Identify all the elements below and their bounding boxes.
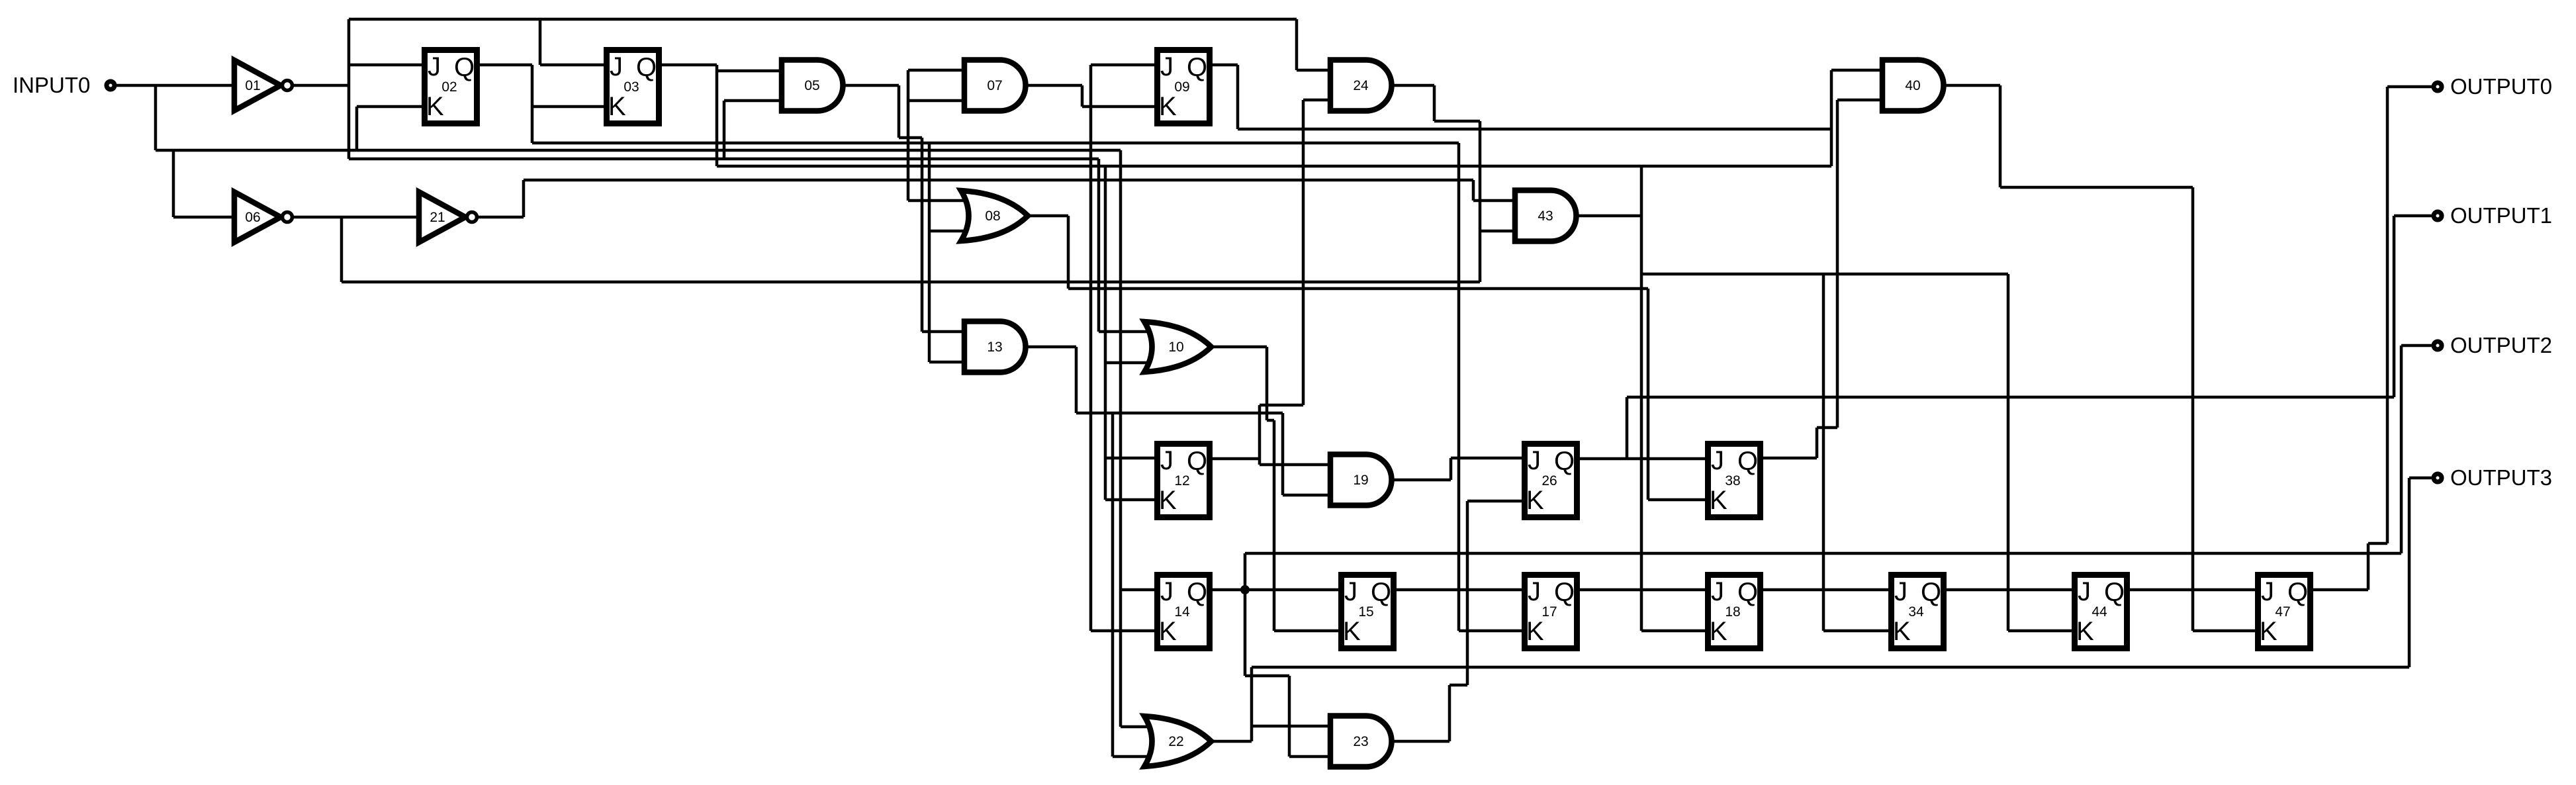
svg-text:K: K bbox=[1159, 92, 1177, 121]
jk flip-flop 26 bbox=[1525, 444, 1577, 518]
jk flip-flop 44 bbox=[2075, 575, 2127, 649]
svg-text:38: 38 bbox=[1725, 473, 1740, 488]
svg-text:Q: Q bbox=[1554, 447, 1575, 476]
wire bus y=195 to and 40 in1 riser bbox=[1238, 128, 1831, 131]
wire and 24 output steps bbox=[1390, 85, 1480, 121]
svg-text:K: K bbox=[1343, 617, 1361, 646]
svg-text:24: 24 bbox=[1353, 78, 1369, 93]
wire bus y=216 bbox=[532, 142, 1459, 145]
jk flip-flop 02 bbox=[425, 50, 477, 124]
label OUTPUT3 bbox=[2450, 465, 2552, 490]
wire Q38 up to and 40 in2 bbox=[1763, 100, 1882, 458]
output terminal OUTPUT2 bbox=[2434, 342, 2442, 349]
jk flip-flop 17 bbox=[1525, 575, 1577, 649]
output terminal OUTPUT0 bbox=[2434, 83, 2442, 91]
svg-text:OUTPUT0: OUTPUT0 bbox=[2450, 74, 2552, 99]
svg-text:05: 05 bbox=[804, 78, 819, 93]
svg-text:J: J bbox=[1711, 577, 1724, 606]
wire bus y=216 down to K of 17 bbox=[1459, 143, 1522, 631]
wire INPUT0 branch to J of 14 bbox=[1121, 588, 1154, 592]
svg-text:K: K bbox=[1526, 617, 1544, 646]
wire and 23 output to K of 26 bbox=[1390, 501, 1522, 741]
jk flip-flop 14 bbox=[1158, 575, 1210, 649]
jk flip-flop 47 bbox=[2258, 575, 2311, 649]
wire and 07 output to K of 09 bbox=[1023, 85, 1154, 107]
wire bus y=216 up to and 07 inputs bbox=[908, 70, 964, 143]
svg-text:J: J bbox=[1160, 446, 1173, 475]
wire Q02 to K of 03 bbox=[532, 105, 604, 109]
wire or 22 output to OUTPUT3 bbox=[1252, 478, 2433, 667]
wire Q03 to and 05 in1 bbox=[717, 69, 782, 73]
wire bus y=251 down to or 10 in2 and J K of 12 bbox=[1105, 166, 1166, 500]
wire bus y=251 bbox=[717, 165, 1831, 168]
and gate 19 bbox=[1330, 455, 1392, 506]
svg-text:K: K bbox=[1893, 617, 1911, 646]
wire inverter 21 output bus y=272 to and 43 in1 bbox=[477, 180, 1515, 217]
wire INPUT0 to inverter 01 bbox=[116, 84, 234, 87]
and gate 13 bbox=[964, 322, 1026, 373]
svg-text:K: K bbox=[608, 92, 626, 121]
svg-text:02: 02 bbox=[441, 79, 457, 95]
jk flip-flop 09 bbox=[1158, 50, 1210, 124]
wire Q26 to J of 38 bbox=[1580, 457, 1705, 461]
svg-text:OUTPUT2: OUTPUT2 bbox=[2450, 333, 2552, 357]
wire and 43 output to riser bbox=[1574, 214, 1641, 218]
wire or 22 output to and 23 in1 bbox=[1252, 725, 1330, 728]
svg-text:J: J bbox=[1528, 577, 1541, 606]
svg-text:J: J bbox=[1160, 577, 1173, 606]
wire Q34 to J of 44 bbox=[1947, 588, 2072, 592]
svg-text:J: J bbox=[2261, 577, 2274, 606]
svg-text:06: 06 bbox=[245, 210, 260, 225]
svg-text:Q: Q bbox=[1737, 578, 1758, 607]
wire Q02 down to bus y=216 bbox=[480, 65, 532, 143]
wire and 40 output to K of 47 bbox=[1941, 85, 2255, 631]
and gate 05 bbox=[782, 60, 843, 111]
wire riser x=527 top bus bbox=[349, 19, 1297, 159]
wire inverter 06 output to inverter 21 bbox=[292, 216, 419, 219]
wire Q26 branch to OUTPUT1 bbox=[1627, 216, 2433, 459]
wire top bus drop to J of 03 bbox=[540, 19, 604, 65]
svg-text:Q: Q bbox=[1187, 578, 1207, 607]
svg-text:J: J bbox=[1711, 446, 1724, 475]
svg-text:K: K bbox=[2260, 617, 2277, 646]
wire Q14 to J of 15 bbox=[1213, 588, 1338, 592]
wire inverter 06 output bus y=426 bbox=[342, 217, 1480, 282]
wire bus y=216 down to or 08 in1 bbox=[908, 143, 982, 201]
jk flip-flop 12 bbox=[1158, 444, 1210, 518]
svg-text:40: 40 bbox=[1905, 78, 1920, 93]
svg-text:15: 15 bbox=[1358, 604, 1373, 620]
wire and 05 output to and 13 in1 bbox=[839, 85, 964, 332]
svg-text:13: 13 bbox=[987, 340, 1002, 355]
wire INPUT0 branch down and bus y=227 bbox=[156, 85, 1166, 727]
wire bus y=251 up to and 40 in1 bbox=[1831, 70, 1882, 166]
svg-text:Q: Q bbox=[1371, 578, 1391, 607]
svg-text:43: 43 bbox=[1538, 208, 1553, 224]
svg-text:14: 14 bbox=[1174, 604, 1190, 620]
svg-text:Q: Q bbox=[2104, 578, 2125, 607]
label OUTPUT0 bbox=[2450, 74, 2552, 99]
svg-text:Q: Q bbox=[1187, 53, 1207, 82]
svg-text:J: J bbox=[1528, 446, 1541, 475]
svg-text:01: 01 bbox=[245, 78, 260, 93]
svg-text:26: 26 bbox=[1541, 473, 1557, 488]
wire or 22 output riser bbox=[1207, 667, 1252, 741]
svg-text:OUTPUT1: OUTPUT1 bbox=[2450, 203, 2552, 228]
svg-text:12: 12 bbox=[1174, 473, 1189, 488]
wire INPUT0 branch to K of 02 bbox=[357, 107, 422, 150]
and gate 43 bbox=[1515, 191, 1576, 242]
wire Q03 to corner bbox=[662, 65, 717, 166]
jk flip-flop 34 bbox=[1892, 575, 1944, 649]
wire Q12 to and 19 in1 bbox=[1213, 405, 1330, 465]
svg-text:K: K bbox=[1159, 617, 1177, 646]
and gate 24 bbox=[1330, 60, 1392, 111]
inverter 01 bbox=[234, 60, 293, 111]
svg-text:INPUT0: INPUT0 bbox=[13, 73, 90, 97]
wire riser x=1404 to or 08 in2 and and 13 in2 bbox=[929, 143, 982, 362]
jk flip-flop 38 bbox=[1708, 444, 1761, 518]
wire and 13 output to and 19 in2 bbox=[1283, 413, 1330, 495]
svg-text:19: 19 bbox=[1353, 473, 1368, 488]
wire top bus drop to and 24 in1 bbox=[1297, 19, 1330, 70]
svg-text:17: 17 bbox=[1541, 604, 1557, 620]
wire riser x=1648 J09 to K14 bbox=[1091, 65, 1154, 631]
label INPUT0 bbox=[13, 73, 90, 97]
svg-text:18: 18 bbox=[1725, 604, 1740, 620]
jk flip-flop 03 bbox=[607, 50, 659, 124]
wire and 13 output to corner bbox=[1023, 347, 1283, 413]
wire bus y=414 down to K of 34 bbox=[1823, 274, 1888, 631]
svg-text:OUTPUT3: OUTPUT3 bbox=[2450, 465, 2552, 490]
svg-text:21: 21 bbox=[430, 210, 445, 225]
wire or 10 output to K of 15 bbox=[1207, 347, 1338, 631]
output terminal OUTPUT3 bbox=[2434, 474, 2442, 482]
inverter 21 bbox=[419, 192, 477, 242]
and gate 23 bbox=[1330, 716, 1392, 767]
and gate 07 bbox=[964, 60, 1026, 111]
svg-text:22: 22 bbox=[1168, 734, 1183, 749]
wire Q44 to J of 47 bbox=[2130, 588, 2255, 592]
wire bus y=240 up to and 05 in2 bbox=[724, 101, 782, 159]
jk flip-flop 18 bbox=[1708, 575, 1761, 649]
svg-text:J: J bbox=[610, 52, 623, 81]
svg-text:J: J bbox=[1894, 577, 1908, 606]
label OUTPUT1 bbox=[2450, 203, 2552, 228]
svg-text:K: K bbox=[1710, 486, 1727, 515]
svg-text:Q: Q bbox=[1554, 578, 1575, 607]
svg-text:Q: Q bbox=[1187, 447, 1207, 476]
wire riser x=2236 to and 43 in2 bbox=[1480, 121, 1515, 282]
svg-text:03: 03 bbox=[623, 79, 639, 95]
wire riser x=2480 to K of 18 bbox=[1641, 166, 1705, 631]
wire INPUT0 branch to inverter 06 bbox=[173, 150, 234, 217]
svg-text:47: 47 bbox=[2275, 604, 2290, 620]
wire Q17 to J of 18 bbox=[1580, 588, 1705, 592]
inverter 06 bbox=[234, 192, 293, 242]
wire bus y=240 to or 10 in1 bbox=[349, 159, 1166, 332]
wire Q47 to OUTPUT0 bbox=[2313, 87, 2433, 590]
or gate 08 bbox=[961, 191, 1028, 241]
and gate 40 bbox=[1882, 60, 1944, 111]
svg-text:Q: Q bbox=[1921, 578, 1941, 607]
wire and 19 output to J of 26 bbox=[1390, 458, 1522, 480]
svg-text:J: J bbox=[1160, 52, 1173, 81]
output terminal OUTPUT1 bbox=[2434, 212, 2442, 220]
wire Q14 to OUTPUT2 bbox=[1245, 346, 2433, 553]
svg-text:Q: Q bbox=[1737, 447, 1758, 476]
svg-text:Q: Q bbox=[636, 53, 657, 82]
label OUTPUT2 bbox=[2450, 333, 2552, 357]
jk flip-flop 15 bbox=[1342, 575, 1394, 649]
or gate 22 bbox=[1144, 716, 1211, 766]
wire Q12 up to and 24 in2 bbox=[1260, 100, 1330, 405]
wire top bus to J of 02 bbox=[349, 64, 422, 67]
junction on Q14 net bbox=[1240, 585, 1250, 594]
svg-text:Q: Q bbox=[454, 53, 475, 82]
svg-text:Q: Q bbox=[2287, 578, 2308, 607]
svg-text:09: 09 bbox=[1174, 79, 1189, 95]
wire Q15 to J of 17 bbox=[1397, 588, 1522, 592]
svg-text:K: K bbox=[1526, 486, 1544, 515]
wire Q18 to J of 34 bbox=[1763, 588, 1888, 592]
svg-text:K: K bbox=[2076, 617, 2094, 646]
svg-text:44: 44 bbox=[2092, 604, 2107, 620]
wire inverter 01 output to riser bbox=[292, 84, 349, 87]
svg-text:K: K bbox=[426, 92, 444, 121]
wire and 13 output down to or 22 in2 bbox=[1113, 413, 1166, 757]
svg-text:07: 07 bbox=[987, 78, 1002, 93]
wire Q09 down to bus y=195 bbox=[1213, 65, 1238, 129]
svg-text:K: K bbox=[1159, 486, 1177, 515]
wire or 08 output to K of 38 bbox=[1025, 216, 1705, 500]
svg-text:K: K bbox=[1710, 617, 1727, 646]
svg-text:J: J bbox=[428, 52, 441, 81]
or gate 10 bbox=[1144, 322, 1211, 372]
svg-text:34: 34 bbox=[1908, 604, 1924, 620]
input terminal INPUT0 bbox=[107, 81, 115, 89]
svg-text:23: 23 bbox=[1353, 734, 1368, 749]
wire bus y=414 down to K of 44 bbox=[2008, 274, 2072, 631]
wire Q14 to and 23 in2 bbox=[1245, 676, 1330, 757]
wire bus y=414 bbox=[1641, 273, 2008, 276]
svg-text:10: 10 bbox=[1168, 340, 1183, 355]
svg-text:J: J bbox=[2078, 577, 2091, 606]
wire Q14 riser bbox=[1244, 553, 1247, 676]
svg-text:J: J bbox=[1344, 577, 1357, 606]
svg-text:08: 08 bbox=[985, 208, 1000, 224]
